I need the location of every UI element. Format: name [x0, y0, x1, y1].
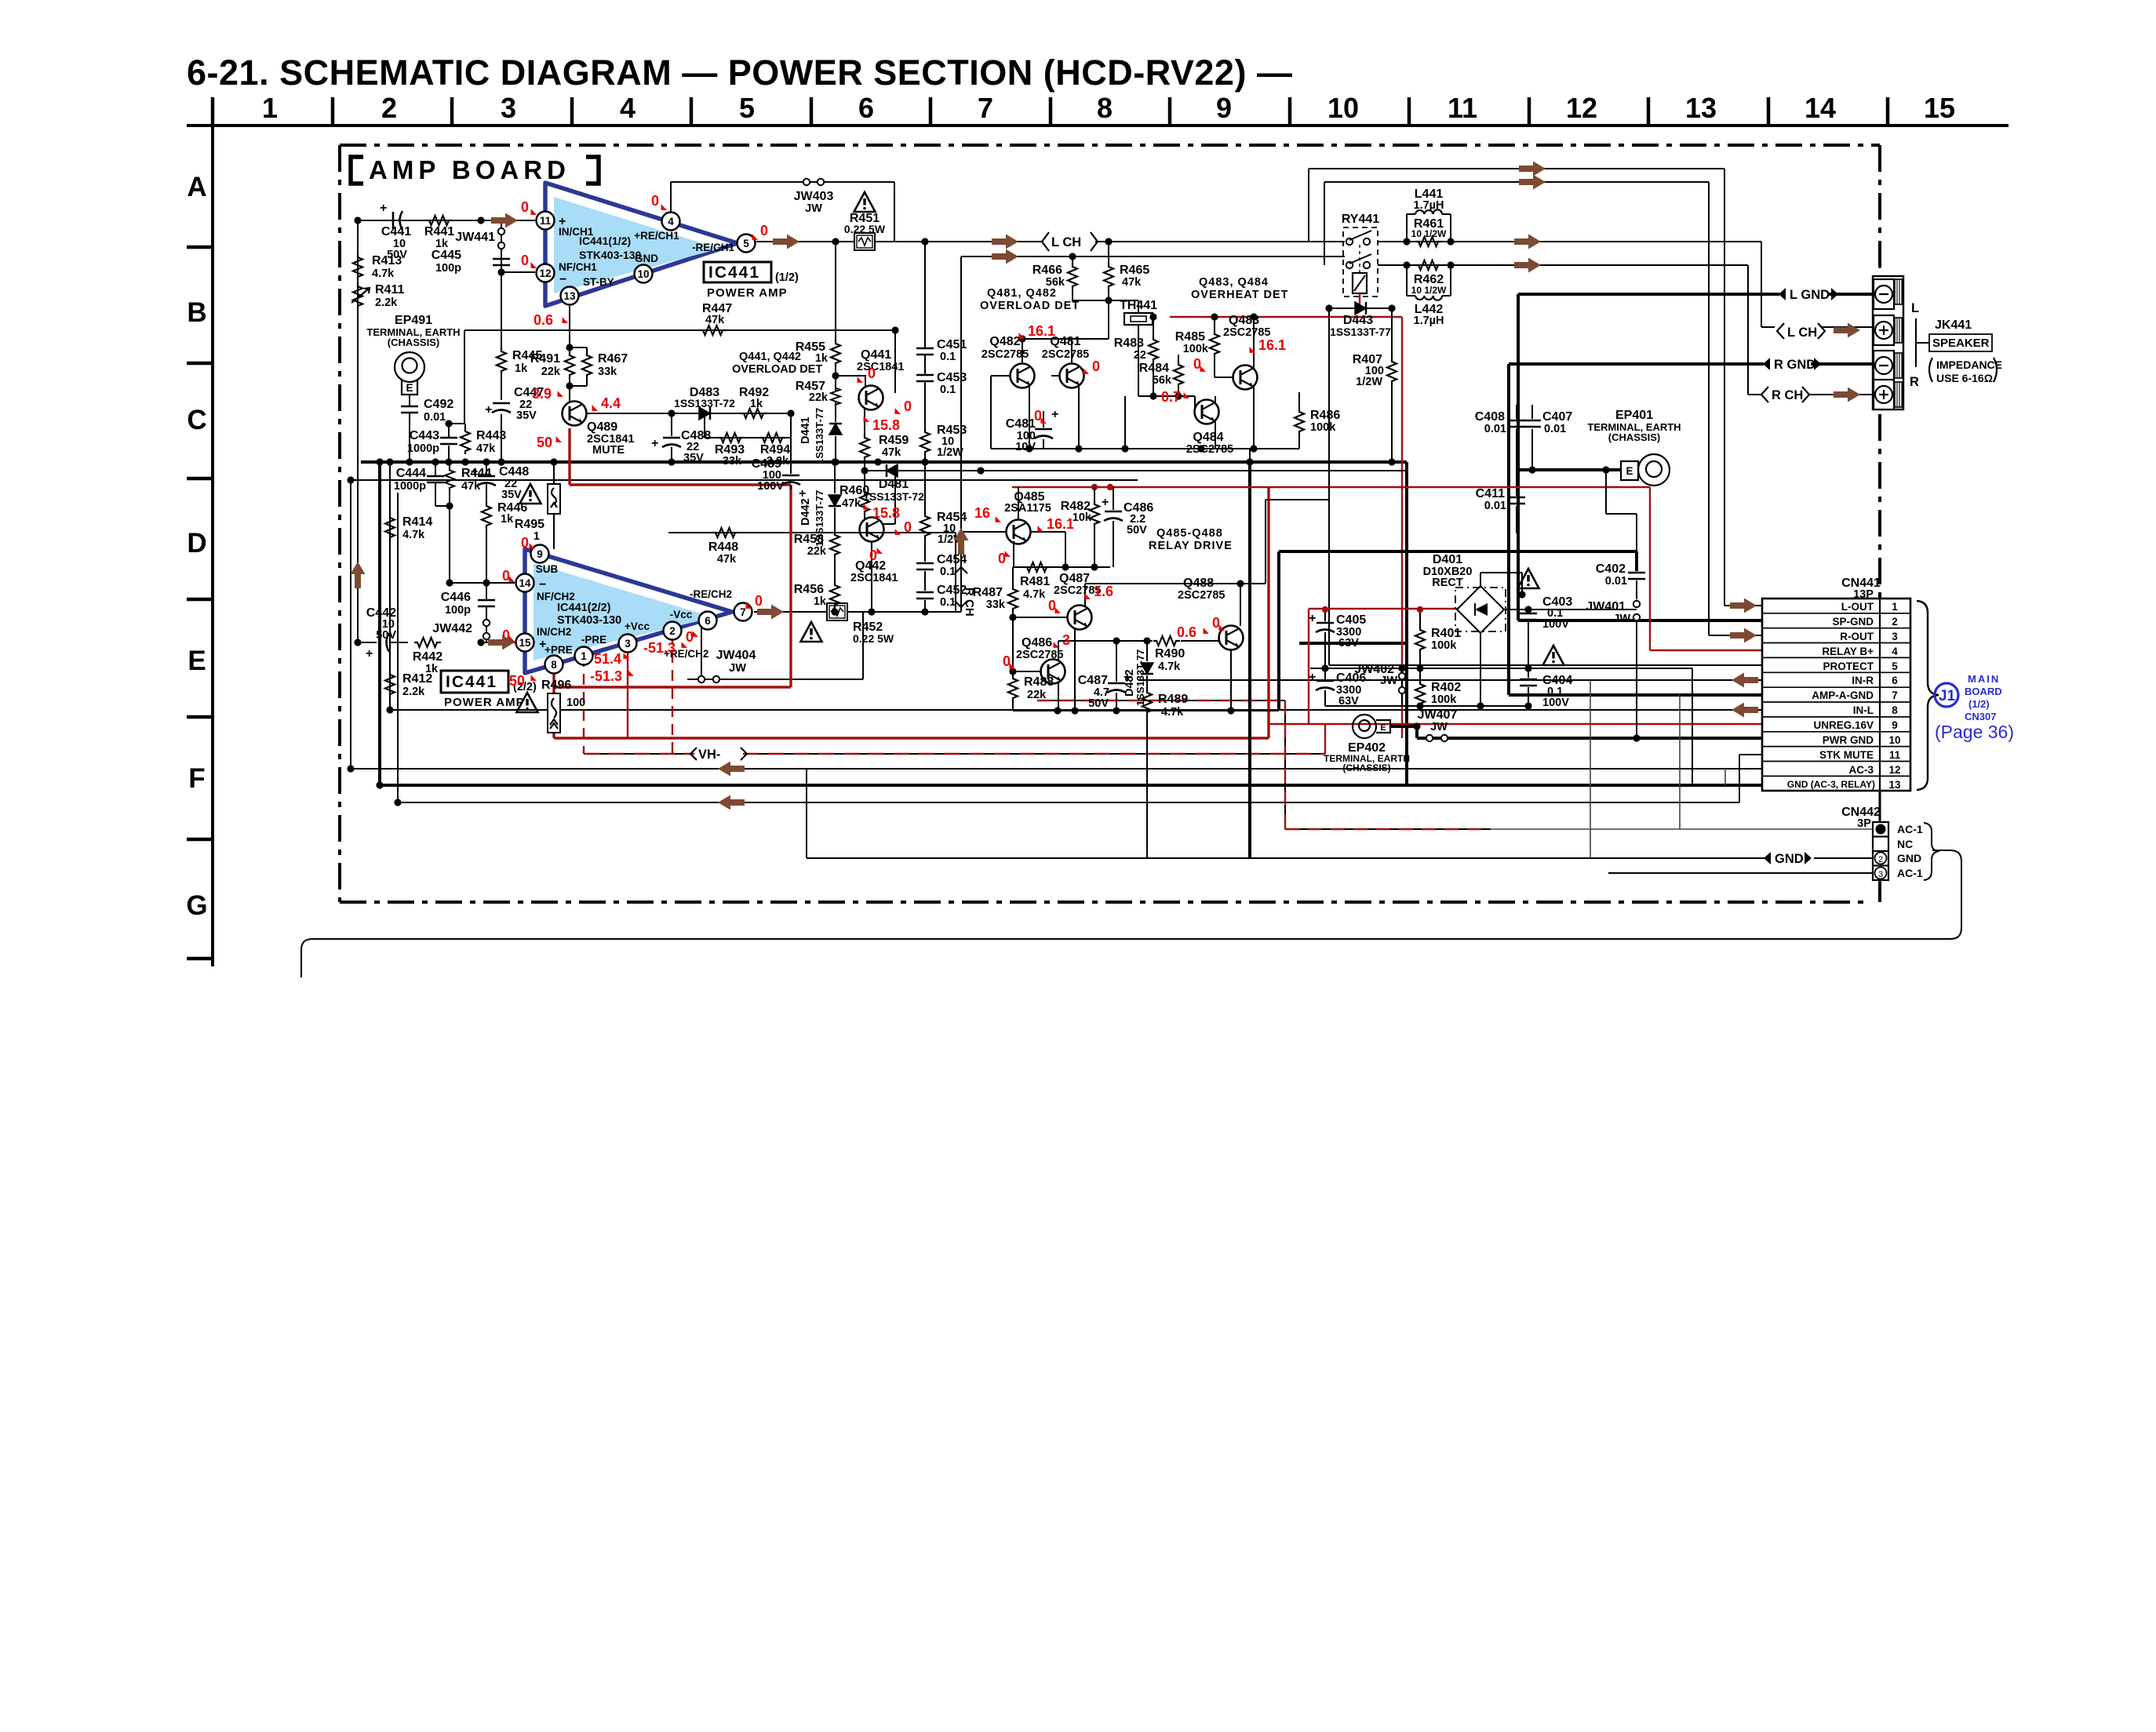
terminal EP401: [1528, 409, 1681, 486]
resistor R442: [413, 638, 515, 675]
pin 10: [635, 265, 653, 283]
svg-text:C445: C445: [432, 249, 461, 262]
svg-text:2SC2785: 2SC2785: [1042, 348, 1089, 361]
wire: thick L col10-12: [1279, 551, 1637, 711]
svg-text:R483: R483: [1114, 337, 1144, 350]
wire: CH1 input bus: [358, 220, 535, 221]
svg-text:R487: R487: [973, 586, 1003, 599]
svg-text:47k: 47k: [842, 497, 861, 510]
svg-text:−: −: [559, 273, 566, 286]
bus junction dots: [347, 458, 881, 806]
svg-text:15: 15: [1924, 92, 1955, 124]
wire: misc vertical col13: [1590, 680, 1725, 858]
pin 1: [575, 647, 593, 665]
svg-text:35V: 35V: [501, 489, 522, 501]
svg-text:0: 0: [868, 366, 876, 381]
svg-text:R412: R412: [402, 672, 432, 686]
svg-text:-51.3: -51.3: [590, 668, 622, 684]
wire power bottom row: [1325, 705, 1528, 707]
svg-text:4.7k: 4.7k: [1023, 588, 1046, 601]
svg-text:D401: D401: [1433, 553, 1462, 566]
svg-text:11: 11: [540, 215, 552, 227]
svg-text:10: 10: [1888, 734, 1900, 746]
pin 15: [516, 634, 534, 652]
column ruler ticks: [213, 97, 1888, 126]
pin 11: [537, 212, 555, 230]
svg-text:C454: C454: [937, 553, 967, 566]
svg-text:JW403: JW403: [794, 190, 834, 203]
svg-text:R484: R484: [1139, 362, 1169, 375]
svg-text:-Vcc: -Vcc: [670, 609, 693, 620]
svg-text:0.01: 0.01: [424, 411, 446, 424]
resistor R488: [1008, 671, 1054, 711]
wire: IN-L long line: [390, 709, 1762, 711]
diode D441: [799, 408, 842, 464]
svg-text:100V: 100V: [757, 480, 784, 493]
svg-text:50V: 50V: [1127, 524, 1147, 537]
jumper JW403: [792, 179, 835, 215]
svg-text:1k: 1k: [815, 352, 829, 365]
capacitor C446 + jumper JW442: [432, 583, 495, 642]
svg-text:3: 3: [625, 638, 631, 649]
svg-text:C452: C452: [937, 584, 967, 597]
svg-text:JW: JW: [729, 662, 746, 675]
transistor Q442: [850, 471, 898, 616]
svg-text:IN/CH2: IN/CH2: [537, 626, 571, 638]
svg-text:JW: JW: [805, 202, 822, 215]
arrow AC-3 left: [718, 762, 745, 777]
svg-text:1: 1: [262, 92, 278, 124]
left row border: [211, 126, 214, 966]
svg-text:6: 6: [705, 615, 711, 627]
svg-text:SP-GND: SP-GND: [1832, 616, 1874, 628]
resistor R482: [1061, 487, 1099, 567]
transistor Q486: [1009, 617, 1150, 711]
svg-text:A: A: [187, 172, 206, 202]
svg-text:22k: 22k: [807, 545, 827, 558]
svg-text:JW401: JW401: [1586, 600, 1626, 613]
wire: STK MUTE line: [398, 493, 1762, 802]
svg-text:GND: GND: [1897, 852, 1921, 864]
svg-text:R456: R456: [794, 583, 824, 596]
svg-text:IC441: IC441: [446, 673, 497, 691]
svg-text:R496: R496: [541, 679, 571, 692]
resistor R492: [739, 386, 769, 418]
arrow L CH mid pair: [992, 235, 1018, 249]
svg-text:EP401: EP401: [1615, 409, 1653, 422]
thermistor TH441: [1109, 299, 1157, 396]
svg-text:JW: JW: [1613, 613, 1630, 625]
svg-text:100k: 100k: [1431, 693, 1457, 706]
arrow IN-L left: [1732, 703, 1758, 718]
svg-text:2: 2: [669, 625, 676, 637]
svg-text:C481: C481: [1006, 417, 1036, 431]
pin 14: [516, 574, 534, 592]
resistor R454: [920, 462, 967, 562]
capacitor C488: [651, 413, 711, 464]
capacitor C411: [1476, 487, 1525, 512]
capacitor C441: [377, 202, 419, 261]
wire: AMP-A-GND thick with drop: [1509, 364, 1762, 695]
svg-text:NF/CH2: NF/CH2: [537, 591, 575, 602]
svg-text:Q441: Q441: [861, 348, 891, 362]
resistor R455: [796, 238, 840, 391]
svg-text:+: +: [366, 647, 373, 660]
resistor R458: [794, 531, 839, 584]
svg-text:+PRE: +PRE: [544, 644, 573, 656]
arrow up R454: [954, 528, 969, 555]
transistor Q483: [1223, 313, 1270, 449]
svg-text:50V: 50V: [376, 629, 396, 642]
svg-text:10: 10: [637, 268, 649, 280]
svg-text:0: 0: [651, 193, 659, 209]
capacitor C487: [1078, 641, 1131, 711]
svg-text:R: R: [1910, 375, 1919, 389]
svg-text:C446: C446: [441, 591, 471, 604]
svg-text:1: 1: [581, 650, 587, 662]
svg-text:15.8: 15.8: [872, 505, 900, 521]
row letters: [186, 172, 207, 921]
wire: JW403 link: [671, 182, 894, 242]
label J1 main board: [1935, 673, 2014, 742]
resistor R456: [794, 581, 839, 616]
resistor R487: [973, 567, 1018, 621]
wire: bottom rounded bus: [301, 850, 1961, 977]
svg-text:R495: R495: [515, 518, 544, 531]
svg-text:-RE/CH2: -RE/CH2: [690, 588, 732, 600]
svg-text:R481: R481: [1020, 575, 1050, 588]
resistor R486: [1295, 392, 1340, 449]
svg-text:−: −: [539, 578, 546, 591]
svg-text:13: 13: [1685, 92, 1717, 124]
wire: thick row D stub: [1299, 642, 1407, 645]
svg-text:R488: R488: [1024, 675, 1054, 689]
resistor R412: [385, 671, 432, 698]
wire: EP401 earth wire: [1517, 468, 1621, 471]
svg-text:G: G: [186, 890, 207, 921]
wire overload collector row: [1022, 300, 1109, 364]
pin 12: [537, 264, 555, 282]
svg-text:9: 9: [1216, 92, 1232, 124]
svg-text:3: 3: [501, 92, 516, 124]
svg-text:56k: 56k: [1046, 276, 1065, 289]
resistor R441: [424, 216, 454, 250]
wire: main thick supply bus: [361, 460, 1407, 464]
arrow up left: [351, 562, 366, 588]
svg-text:0.1: 0.1: [940, 596, 956, 609]
resistor R489: [1142, 689, 1188, 858]
svg-text:63V: 63V: [1338, 637, 1359, 649]
svg-text:4: 4: [620, 92, 636, 124]
svg-text:MAIN: MAIN: [1968, 673, 2000, 685]
resistor R407: [1353, 308, 1397, 466]
svg-text:+: +: [1309, 612, 1316, 625]
svg-text:USE 6-16Ω: USE 6-16Ω: [1936, 372, 1993, 384]
capacitor C489: [752, 413, 807, 500]
svg-text:22: 22: [1134, 349, 1146, 362]
svg-text:(1/2): (1/2): [1968, 698, 1990, 710]
arrow STK MUTE left: [718, 795, 745, 810]
svg-text:7: 7: [1892, 690, 1898, 701]
resistor R493 R494 row: [705, 413, 791, 468]
svg-text:+: +: [485, 403, 492, 417]
svg-text:R-OUT: R-OUT: [1840, 631, 1874, 642]
wire: R CH bus: [961, 257, 1877, 612]
svg-text:100k: 100k: [1183, 343, 1209, 355]
svg-text:B: B: [187, 297, 206, 328]
wire: L-OUT feedback line: [1309, 169, 1762, 606]
svg-text:C411: C411: [1476, 487, 1505, 500]
svg-text:R486: R486: [1310, 409, 1340, 422]
svg-text:E: E: [188, 646, 206, 676]
resistor R445 + capacitor C447: [485, 272, 544, 462]
wire: red bias rail: [554, 485, 791, 687]
svg-text:JW404: JW404: [716, 649, 756, 662]
capacitor C448 + resistor R446: [471, 462, 529, 583]
resistor R460: [839, 471, 869, 519]
resistor R491 + resistor R467 parallel: [530, 306, 628, 402]
resistor R448: [668, 528, 739, 566]
svg-text:Q482: Q482: [989, 335, 1020, 348]
node R CH rotated: [955, 567, 976, 617]
wire: SP-GND thick with drop: [1518, 294, 1762, 620]
svg-text:7: 7: [978, 92, 993, 124]
wire: red VH- to UNREG: [1324, 724, 1326, 754]
capacitor C404: [1520, 646, 1572, 710]
wire: red pin3 drop: [627, 645, 628, 738]
svg-text:STK MUTE: STK MUTE: [1819, 749, 1874, 761]
resistor R452: [801, 603, 894, 645]
svg-text:33k: 33k: [598, 366, 617, 378]
node GND: [1764, 852, 1812, 866]
svg-text:0: 0: [760, 223, 768, 238]
svg-text:D: D: [187, 528, 206, 559]
capacitor C481: [1006, 408, 1059, 453]
svg-text:4.7k: 4.7k: [372, 267, 395, 280]
svg-text:2: 2: [1892, 616, 1898, 628]
svg-text:E: E: [406, 382, 413, 394]
wire: thick bus drop: [1405, 462, 1408, 785]
diode D483: [674, 386, 735, 420]
svg-text:F: F: [188, 763, 205, 794]
arrow relay out pair: [1514, 235, 1541, 249]
svg-text:2.2k: 2.2k: [375, 297, 398, 309]
svg-text:4.7k: 4.7k: [1158, 660, 1181, 673]
wire: R-OUT feedback line: [1324, 182, 1762, 635]
svg-text:15: 15: [519, 637, 531, 649]
wire emitter bus: [991, 448, 1299, 449]
svg-text:SUB: SUB: [536, 563, 559, 575]
svg-text:3: 3: [1892, 631, 1898, 642]
svg-text:AC-3: AC-3: [1848, 764, 1874, 776]
svg-text:C487: C487: [1078, 674, 1108, 687]
svg-text:-51.3: -51.3: [643, 640, 676, 656]
wire: GND(AC-3,RELAY) thick bus: [380, 784, 1762, 787]
svg-text:8: 8: [1097, 92, 1113, 124]
label IC441 box 2: [441, 671, 537, 709]
svg-text:L CH: L CH: [1051, 235, 1081, 249]
svg-text:0: 0: [521, 535, 529, 551]
svg-text:11: 11: [1448, 92, 1477, 124]
svg-text:1: 1: [1892, 601, 1898, 613]
svg-text:50V: 50V: [1088, 697, 1109, 710]
svg-text:JK441: JK441: [1935, 318, 1972, 332]
svg-text:E: E: [1380, 723, 1386, 733]
svg-text:10V: 10V: [1015, 441, 1036, 453]
svg-text:10 1/2W: 10 1/2W: [1411, 228, 1447, 239]
svg-text:D441: D441: [799, 417, 812, 444]
node L CH: [1777, 323, 1825, 340]
svg-text:C444: C444: [396, 467, 426, 480]
transistor Q481: [1042, 335, 1089, 449]
svg-text:1k: 1k: [750, 398, 763, 410]
red annotations amp1: [521, 193, 768, 328]
wire: C408 C407 verticals: [1517, 405, 1532, 533]
svg-text:IN-L: IN-L: [1853, 704, 1874, 716]
svg-text:3: 3: [1878, 870, 1883, 879]
resistor R496 fusible: [517, 679, 586, 733]
pin 13: [561, 287, 579, 305]
resistor R465: [1104, 238, 1149, 304]
svg-text:2SC2785: 2SC2785: [981, 348, 1029, 361]
svg-text:R442: R442: [413, 650, 442, 664]
svg-text:10k: 10k: [1073, 511, 1092, 524]
capacitor C454: [916, 553, 967, 591]
svg-text:100V: 100V: [1542, 697, 1569, 709]
wire: AC-1 pin1 line: [1491, 828, 1873, 830]
transistor Q441: [836, 330, 909, 462]
capacitor C403: [1518, 569, 1573, 672]
svg-text:0: 0: [998, 551, 1006, 566]
arrow CH2 input: [488, 635, 515, 650]
wire: red dashed pin2 drop: [672, 634, 673, 754]
terminal EP402 + jumper JW407: [1324, 708, 1457, 773]
svg-text:C: C: [187, 405, 206, 435]
svg-text:5: 5: [1892, 660, 1898, 672]
svg-text:JW442: JW442: [432, 622, 472, 635]
diode D481: [863, 464, 924, 503]
arrow R-OUT: [1730, 628, 1757, 643]
svg-text:R491: R491: [530, 352, 560, 366]
svg-text:D442: D442: [799, 498, 812, 526]
svg-text:J1: J1: [1939, 688, 1956, 704]
svg-text:IC441: IC441: [708, 264, 760, 282]
svg-text:8: 8: [1892, 704, 1898, 716]
wire: red dashed pin1 drop: [583, 656, 585, 754]
svg-text:PWR GND: PWR GND: [1823, 734, 1874, 746]
capacitor C453: [916, 371, 967, 430]
op-amp IC441 (1/2): [537, 183, 756, 306]
wire D481 row: [865, 462, 1138, 471]
red annotations Q489: [532, 386, 621, 450]
svg-text:2: 2: [1878, 855, 1883, 864]
arrow IN-R left: [1732, 673, 1758, 688]
pin 3: [619, 635, 637, 653]
wire: AC-3 line: [351, 768, 1762, 770]
svg-text:R GND: R GND: [1774, 358, 1815, 372]
node L GND: [1779, 288, 1838, 302]
svg-text:C448: C448: [499, 465, 529, 478]
svg-text:1.6: 1.6: [1094, 584, 1113, 599]
svg-text:2SC1841: 2SC1841: [850, 572, 898, 584]
svg-text:OVERHEAT DET: OVERHEAT DET: [1191, 289, 1289, 301]
resistor R484: [1139, 355, 1183, 400]
wire: IN-R line: [1138, 679, 1762, 681]
pin 6: [699, 612, 717, 630]
wire: red RELAY B+: [1650, 487, 1762, 650]
wire: CH1 output L CH bus: [756, 242, 1877, 327]
svg-text:JW: JW: [1380, 675, 1397, 687]
inductor L442 + resistor R462: [1403, 260, 1454, 327]
pin 8: [545, 656, 563, 674]
wire overheat base row: [1138, 396, 1195, 406]
AMP BOARD label: [351, 157, 599, 184]
svg-text:R460: R460: [839, 484, 869, 497]
svg-text:2SC2785: 2SC2785: [1186, 443, 1233, 456]
resistor R401: [1415, 606, 1461, 672]
svg-text:15.8: 15.8: [872, 417, 900, 433]
svg-text:1k: 1k: [515, 362, 528, 375]
svg-text:L CH: L CH: [1787, 326, 1817, 340]
svg-text:R402: R402: [1431, 681, 1461, 694]
svg-text:0.6: 0.6: [1177, 624, 1196, 640]
node R GND: [1763, 358, 1821, 372]
svg-text:+: +: [380, 202, 387, 215]
resistor R457: [796, 380, 840, 417]
svg-text:1k: 1k: [501, 513, 514, 526]
svg-text:POWER AMP: POWER AMP: [444, 696, 525, 709]
svg-text:47k: 47k: [461, 480, 481, 493]
svg-text:47k: 47k: [705, 314, 725, 326]
svg-text:C405: C405: [1336, 613, 1366, 627]
svg-text:1/2W: 1/2W: [937, 446, 963, 459]
svg-text:-PRE: -PRE: [581, 634, 606, 646]
svg-text:+: +: [1051, 408, 1058, 421]
svg-text:Q484: Q484: [1193, 431, 1223, 444]
svg-text:4: 4: [1892, 646, 1898, 657]
svg-text:2.2k: 2.2k: [402, 686, 425, 698]
svg-text:(CHASSIS): (CHASSIS): [1342, 762, 1390, 773]
svg-text:0: 0: [869, 548, 877, 563]
wire: D481 bias extension: [1138, 470, 1407, 471]
arrow CH1 input: [491, 213, 518, 228]
svg-text:Q489: Q489: [587, 420, 617, 434]
capacitor C408: [1475, 410, 1525, 435]
svg-text:6-21. SCHEMATIC DIAGRAM — POWE: 6-21. SCHEMATIC DIAGRAM — POWER SECTION …: [187, 53, 1292, 93]
svg-text:8: 8: [551, 659, 557, 671]
svg-text:(CHASSIS): (CHASSIS): [388, 337, 439, 348]
wire: PWR GND thick from JW407: [1417, 737, 1762, 740]
rectifier D401: [1423, 553, 1637, 706]
svg-text:16.1: 16.1: [1028, 323, 1055, 339]
svg-text:RELAY B+: RELAY B+: [1822, 646, 1874, 657]
arrow pin5 out: [773, 235, 799, 249]
svg-text:0.1: 0.1: [940, 566, 956, 578]
wire: AC-1 pin3 line: [1608, 872, 1873, 874]
svg-text:D481: D481: [879, 478, 909, 491]
transistor Q488: [1178, 577, 1244, 711]
svg-text:IMPEDANCE: IMPEDANCE: [1936, 358, 2002, 371]
svg-text:0.01: 0.01: [1484, 423, 1506, 435]
svg-text:1k: 1k: [814, 595, 827, 608]
wire NF/CH2 node: [450, 582, 515, 584]
node R CH: [1761, 387, 1809, 402]
svg-text:2SC1841: 2SC1841: [857, 361, 904, 373]
pin 2: [664, 622, 682, 640]
svg-text:Q486: Q486: [1022, 636, 1052, 649]
svg-text:NC: NC: [1897, 838, 1913, 850]
pin 4: [662, 213, 680, 231]
